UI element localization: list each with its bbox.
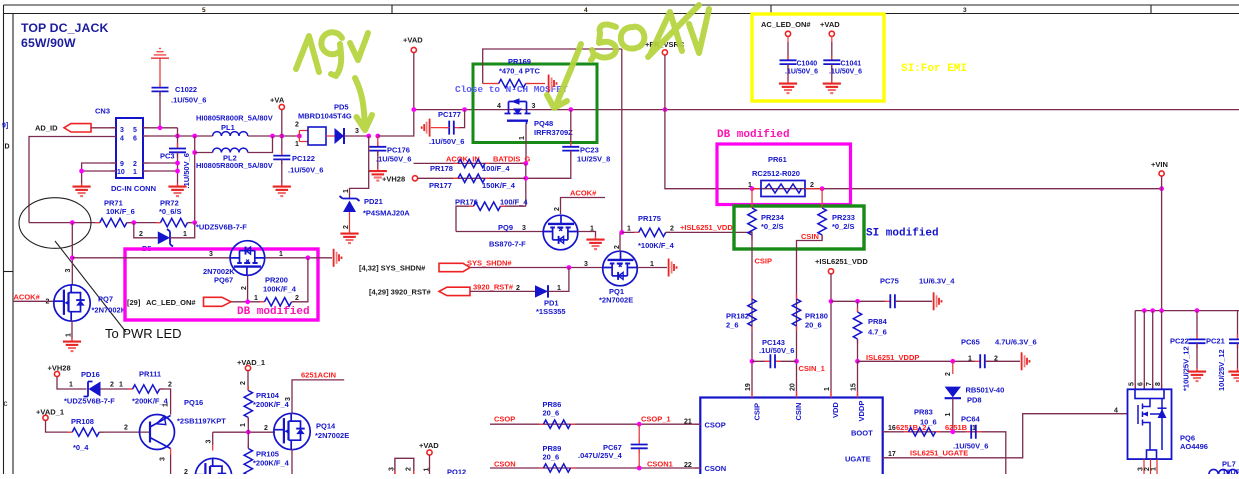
svg-text:PR178: PR178 [430,164,453,173]
capacitor C1041 [823,55,840,69]
border outer top line [4,4,1239,6]
svg-text:[29]: [29] [127,298,141,307]
wire PQ67 source right [265,257,332,259]
wire CSIN jog [797,235,823,398]
svg-text:PR84: PR84 [868,317,888,326]
wire [429,455,431,474]
resistor PR86 [539,420,575,428]
wire [101,388,133,390]
svg-text:DB modified: DB modified [237,306,310,318]
svg-text:CSIN: CSIN [794,403,803,421]
power node [43,415,48,420]
svg-text:1: 1 [557,285,561,292]
capacitor PC22 [1196,311,1198,338]
svg-text:2: 2 [810,182,814,189]
svg-text:PQ9: PQ9 [498,223,513,232]
svg-text:3: 3 [532,103,536,110]
wire [395,458,414,474]
annotation diagonal line [55,241,126,332]
svg-text:*2N7002E: *2N7002E [315,431,349,440]
svg-text:19: 19 [745,383,752,391]
junction [246,430,251,435]
svg-text:*470_4 PTC: *470_4 PTC [499,67,540,76]
svg-text:3: 3 [209,251,213,258]
svg-text:1: 1 [240,423,247,427]
resistor PR104 (vertical) [244,386,252,422]
resistor PR72 [156,218,192,226]
svg-text:1: 1 [424,468,431,472]
svg-text:3920_RST#: 3920_RST# [473,283,514,292]
svg-text:PR200: PR200 [265,276,288,285]
svg-text:1: 1 [1151,467,1158,471]
PQ6 drain pins 5..8 verticals [1135,311,1161,390]
power node [785,31,790,36]
node BATDIS [523,161,528,166]
svg-text:SI:For EMI: SI:For EMI [901,63,967,75]
capacitor [1189,334,1206,348]
capacitor PC23 branch [570,110,572,145]
svg-text:2_6: 2_6 [726,321,739,330]
junction [567,265,572,270]
wire [170,455,172,475]
junction [663,107,668,112]
svg-text:4: 4 [497,103,501,110]
svg-text:*UDZ5V6B-7-F: *UDZ5V6B-7-F [64,397,115,406]
svg-text:c: c [4,399,8,408]
junction [829,299,834,304]
svg-text:1: 1 [119,382,123,389]
resistor PR169 [483,83,499,85]
capacitor PC64 [966,425,982,439]
svg-text:PC176: PC176 [387,146,410,155]
capacitor [1229,334,1239,348]
svg-text:1: 1 [343,189,350,193]
svg-text:DB modified: DB modified [717,129,790,141]
verticals PR61 to green box [752,189,822,208]
svg-text:6: 6 [133,136,137,143]
transistor PQ67 [230,241,265,276]
resistor PR84 (vertical) [857,301,859,312]
wire [377,151,379,170]
svg-text:PR234: PR234 [761,213,785,222]
wire +VAD down [413,53,415,110]
source PQ7 to ground [71,321,73,341]
wire PL2 right up to row2 [248,136,273,153]
svg-text:*0_2/S: *0_2/S [832,222,855,231]
capacitor [562,142,579,156]
capacitor PC176 [377,136,379,147]
gate PQ67 down [247,276,249,302]
vertical PR169/PQ1 drain x621.8 [621,49,623,232]
svg-text:5: 5 [133,127,137,134]
svg-text:C1022: C1022 [175,85,197,94]
power node [411,47,416,52]
svg-text:PR182: PR182 [726,312,749,321]
junction [855,299,860,304]
svg-text:2: 2 [554,207,561,211]
svg-text:PC21: PC21 [1206,337,1225,346]
svg-text:.1U/50V_6: .1U/50V_6 [182,153,191,188]
svg-text:10U/25V_12: 10U/25V_12 [1217,349,1226,391]
vertical BATDIS down [525,163,527,206]
svg-text:+VIN: +VIN [1151,160,1168,169]
annotation magenta box PR61 [717,144,851,205]
svg-text:PR169: PR169 [508,57,531,66]
junction [70,255,75,260]
svg-text:PQ67: PQ67 [214,276,233,285]
svg-text:1: 1 [748,182,752,189]
wire [622,231,639,233]
resistor PR200 [260,298,296,306]
svg-text:To PWR LED: To PWR LED [105,326,182,341]
svg-text:HI0805R800R_5A/80V: HI0805R800R_5A/80V [196,161,273,170]
svg-text:5: 5 [202,7,206,14]
diode PD5 [326,135,335,137]
svg-text:1: 1 [163,403,170,407]
svg-text:2: 2 [343,225,350,229]
svg-text:10: 10 [117,169,125,176]
resistor PR111 [128,385,164,393]
resistor [494,79,530,87]
capacitor [765,354,781,368]
wire [1196,343,1198,370]
junction [462,107,467,112]
node PC176 branch [375,134,380,139]
node row2/PC3 [175,134,180,139]
node PR177/PC23 [523,176,528,181]
svg-text:*1SS355: *1SS355 [536,307,566,316]
svg-text:3: 3 [963,7,967,14]
wire VDD rail to PC75 [831,300,886,302]
PQ6 source pins down [1144,459,1157,474]
wire C1022 to row1 [159,91,161,127]
svg-text:CSIP: CSIP [753,403,762,421]
source PQ14 down [291,449,293,474]
svg-text:PC65: PC65 [961,338,980,347]
inductor PL2 [213,148,248,152]
junction [1195,308,1200,313]
power node [662,50,667,55]
svg-text:ISL6251_UGATE: ISL6251_UGATE [910,449,968,458]
svg-text:.1U/50V_6: .1U/50V_6 [376,155,411,164]
ground PC122 [273,183,291,196]
wire [1237,343,1239,370]
svg-text:MBRD1045T4G: MBRD1045T4G [298,112,352,121]
svg-text:+VA: +VA [270,96,285,105]
wire rows 9,10 left to ground [82,163,116,186]
wire [548,268,569,292]
zener PD21 [340,196,360,212]
wire PR200 up to source node [292,258,308,302]
junction [192,220,197,225]
svg-text:100/F_4: 100/F_4 [500,198,528,207]
junction [637,422,642,427]
svg-text:RB501V-40: RB501V-40 [966,386,1005,395]
resistor PR71 [95,218,131,226]
svg-text:PC64: PC64 [961,415,981,424]
svg-text:AO4496: AO4496 [1180,442,1208,451]
svg-text:100K/F_4: 100K/F_4 [263,285,297,294]
svg-text:2: 2 [516,285,520,292]
svg-text:CSON: CSON [494,460,516,469]
svg-text:15: 15 [851,383,858,391]
svg-text:1: 1 [295,141,299,148]
wire AD_ID to CN3 [91,127,116,129]
pin stub [395,471,414,475]
border left tick y284 [4,271,14,273]
capacitor PC177 branch [457,110,465,128]
source PQ9 to ground [578,232,596,239]
resistor PR178 [454,159,490,167]
resistor PR180 (vertical) [792,295,800,331]
svg-text:4.7_6: 4.7_6 [868,328,887,337]
svg-text:*0_6/S: *0_6/S [159,207,182,216]
handwriting 19V [296,36,319,72]
wire [895,300,932,302]
transistor PQ9 gate wire [456,231,543,233]
svg-text:CSIP: CSIP [755,257,773,266]
svg-text:[4,29] 3920_RST#: [4,29] 3920_RST# [369,288,432,297]
border tick x392 [391,5,393,14]
power node [1159,171,1164,176]
svg-text:2: 2 [46,299,50,306]
svg-text:*UDZ5V6B-7-F: *UDZ5V6B-7-F [196,223,247,232]
svg-text:PR233: PR233 [832,213,855,222]
svg-text:PR83: PR83 [914,408,933,417]
drain PQ9 to ACOK# stub [561,198,606,215]
resistor PR182 (vertical) [748,295,756,331]
capacitor PC122 [273,151,290,165]
wire [247,371,249,391]
svg-text:*P4SMAJ20A: *P4SMAJ20A [363,209,410,218]
svg-text:PR111: PR111 [139,370,161,379]
wire [490,467,700,469]
wire PQ67 row [72,257,230,259]
wire [857,339,859,361]
wire [1237,311,1239,338]
svg-text:9: 9 [120,161,124,168]
resistor PR89 [539,464,575,472]
svg-text:*100K/F_4: *100K/F_4 [638,241,675,250]
svg-text:SYS_SHDN#: SYS_SHDN# [467,259,512,268]
svg-text:1: 1 [69,382,73,389]
svg-text:3: 3 [355,128,359,135]
node row1/C1022 [158,125,163,130]
svg-text:16: 16 [888,425,896,432]
resistor PR83 [904,428,940,436]
svg-text:CSOP: CSOP [494,415,515,424]
svg-text:PC3: PC3 [160,152,175,161]
svg-text:+VAD: +VAD [419,441,439,450]
power node [54,371,59,376]
svg-text:PC23: PC23 [580,146,599,155]
svg-text:PR177: PR177 [429,181,452,190]
resistor [454,174,490,182]
wire VDDP to pin15 [857,361,859,397]
svg-text:*0_4: *0_4 [73,443,89,452]
svg-text:BOOT: BOOT [851,429,873,438]
svg-text:AD_ID: AD_ID [35,124,58,133]
junction [750,359,755,364]
handwriting arrow 2 [557,44,581,103]
CN3 pin stubs [111,128,149,171]
svg-text:3: 3 [285,397,292,401]
wire [344,135,369,137]
net port SYS_SHDN# [439,263,470,271]
wire [470,290,535,292]
wire [212,432,214,445]
svg-text:ACOK#: ACOK# [570,189,597,198]
svg-text:21: 21 [684,419,692,426]
svg-text:SI modified: SI modified [866,228,939,240]
junction [820,186,825,191]
resistor PR233 (vertical) [818,204,826,240]
svg-text:PD8: PD8 [967,396,982,405]
wire [247,418,249,433]
main rail y109.6 [414,109,1239,111]
comb PQ67 [334,249,342,267]
node PL2 rejoin [270,134,275,139]
wire [127,222,161,224]
svg-text:PD21: PD21 [364,197,383,206]
ground CN3 left [73,183,91,196]
svg-text:IRFR3709Z: IRFR3709Z [534,128,573,137]
svg-text:1: 1 [968,356,972,363]
svg-text:PC75: PC75 [880,277,899,286]
handwriting 19V arrow [355,78,365,128]
annotation green box PQ48 [473,64,597,143]
svg-text:*10U/25V_12: *10U/25V_12 [1182,346,1191,391]
vertical row2 to PL2 to PR71 row [194,136,196,223]
wire row 9,2 right [143,162,178,164]
junction [245,299,250,304]
border tick x771 [770,5,772,14]
wire SYS_SHDN to PQ1 [470,267,603,269]
ground [1188,368,1206,381]
wire row 10,1 right [143,170,178,172]
svg-text:UGATE: UGATE [845,455,871,464]
svg-text:+VAD_1: +VAD_1 [36,408,64,417]
ground C1040 [779,80,797,93]
analog gnd comb PC177 [422,119,430,137]
comb PR169 [549,75,557,93]
annotation ellipse [19,198,91,249]
svg-text:PD5: PD5 [334,103,349,112]
junction [131,220,136,225]
power node [245,366,250,371]
svg-text:PQ48: PQ48 [534,119,553,128]
svg-text:2: 2 [614,245,621,249]
svg-text:PR180: PR180 [805,312,828,321]
pin stub [212,445,214,451]
resistor PR234 (vertical) [748,204,756,240]
svg-text:*2N7002E: *2N7002E [599,296,633,305]
junction [1150,308,1155,313]
svg-text:6251B: 6251B [945,423,968,432]
svg-text:PQ12: PQ12 [447,468,466,475]
junction [175,169,180,174]
wire [57,377,87,389]
svg-text:+VAD_1: +VAD_1 [237,358,265,367]
svg-text:4: 4 [1114,408,1118,415]
svg-text:RC2512-R020: RC2512-R020 [752,169,800,178]
svg-text:CSIN: CSIN [801,232,819,241]
svg-text:AC_LED_ON#: AC_LED_ON# [146,298,196,307]
diode PD1 [535,285,548,297]
wire [188,222,195,224]
wire row1 pins 3,5 [143,127,178,129]
ground PC3 [168,183,186,196]
wire PD5 node up to main rail [378,110,414,136]
svg-text:*0_2/S: *0_2/S [761,222,784,231]
junction [637,466,642,471]
diode PD21 branch wire [350,136,369,199]
source PQ1 to comb [637,267,667,269]
svg-text:150K/F_4: 150K/F_4 [482,181,516,190]
ground PQ7 [63,338,81,351]
junction [950,359,955,364]
junction [175,161,180,166]
wire [666,231,752,233]
svg-text:20_6: 20_6 [543,453,560,462]
svg-text:6: 6 [1138,382,1145,386]
wire PR108 to PQ14 gate row [99,431,275,433]
wire [431,127,449,129]
svg-text:PR175: PR175 [638,214,661,223]
svg-text:PQ16: PQ16 [184,398,203,407]
svg-text:CSOP_1: CSOP_1 [641,415,671,424]
svg-text:2: 2 [168,382,172,389]
svg-text:+ISL6251_VDD: +ISL6251_VDD [680,223,733,232]
junction [950,429,955,434]
wire [952,398,954,432]
svg-text:1: 1 [945,413,952,417]
svg-text:2: 2 [295,122,299,129]
svg-text:1: 1 [824,387,831,391]
svg-text:20_6: 20_6 [543,409,560,418]
ground PC176 [369,168,387,181]
power node [279,104,284,109]
svg-text:4: 4 [120,136,124,143]
comb PC65 [1022,352,1030,370]
wire VDDP rail [858,360,977,362]
svg-text:*2SB1197KPT: *2SB1197KPT [177,417,226,426]
svg-text:CSON: CSON [705,464,727,473]
svg-text:5: 5 [1129,382,1136,386]
svg-text:2: 2 [124,425,128,432]
power node [829,31,834,36]
svg-text:PQ14: PQ14 [316,422,336,431]
resistor [469,202,505,210]
svg-text:PC22: PC22 [1170,337,1189,346]
svg-text:+ISL6251_VDD: +ISL6251_VDD [815,257,868,266]
svg-text:1U/6.3V_4: 1U/6.3V_4 [919,277,955,286]
svg-text:10K/F_6: 10K/F_6 [106,207,135,216]
transistor PQ7 [54,285,90,321]
capacitor [369,142,386,156]
transistor PQ1 [603,251,638,286]
svg-text:BS870-7-F: BS870-7-F [489,240,526,249]
svg-text:CN3: CN3 [95,107,110,116]
junction [750,186,755,191]
wire [170,223,195,238]
PQ6 pin stubs red [1135,384,1161,389]
ground [1228,368,1239,381]
wire row2 pins 4,6 [143,135,213,137]
resistor PR105 (vertical) [244,444,252,479]
svg-text:PR105: PR105 [256,450,279,459]
resistor PR108 [68,428,104,436]
